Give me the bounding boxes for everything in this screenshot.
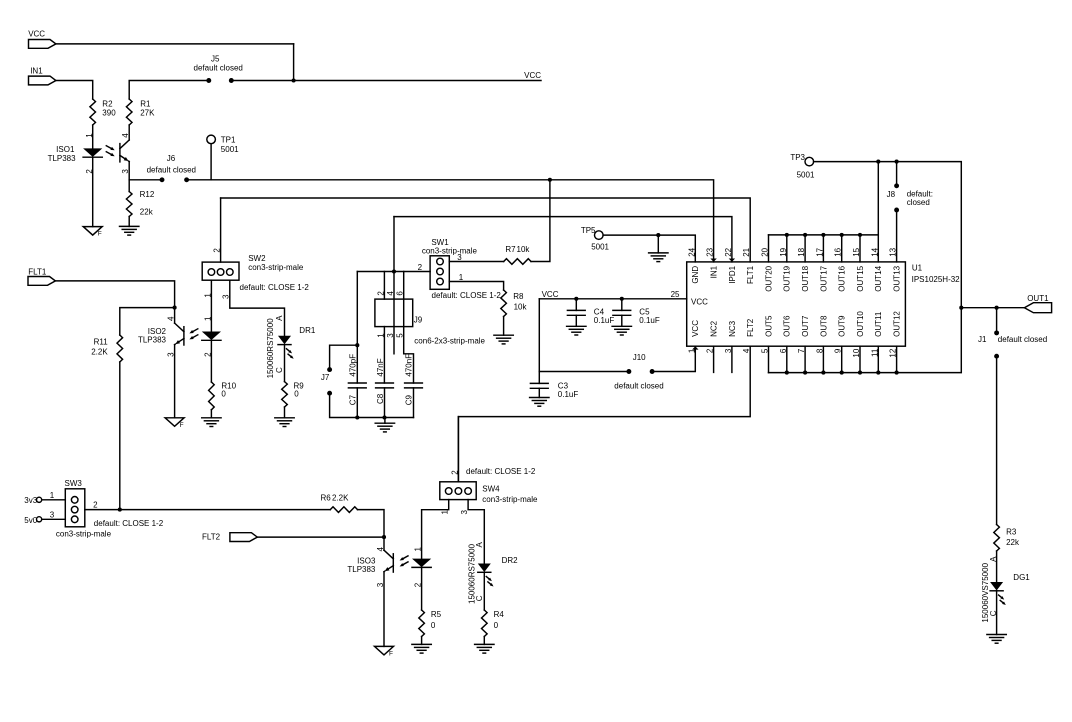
svg-text:J10: J10 (633, 353, 646, 362)
wire R10 to ground (210, 410, 212, 418)
wire TP5 to U1 pin24 (603, 235, 695, 262)
wire SW1 pin2 line (357, 271, 430, 273)
svg-text:R8: R8 (513, 292, 524, 301)
wire J9 pin1 to C8 (383, 327, 385, 383)
wire U1 pin9 stub (841, 346, 843, 372)
svg-text:C8: C8 (376, 393, 385, 404)
svg-text:DG1: DG1 (1013, 573, 1030, 582)
wire U1 pin11 stub (877, 346, 879, 372)
svg-text:con3-strip-male: con3-strip-male (482, 495, 538, 504)
svg-text:SW3: SW3 (65, 479, 83, 488)
svg-text:ISO1: ISO1 (56, 145, 75, 154)
resistor R8 (501, 290, 507, 317)
svg-text:closed: closed (907, 198, 930, 207)
wire 3v3 to SW3 (42, 499, 66, 501)
svg-text:R2: R2 (102, 100, 113, 109)
wire DG1 to ground (996, 591, 998, 635)
svg-text:NC3: NC3 (728, 320, 737, 337)
junction top bus pin16 (840, 233, 844, 237)
svg-text:default: CLOSE 1-2: default: CLOSE 1-2 (94, 519, 164, 528)
wire U1 pin16 stub (841, 235, 843, 262)
svg-text:TP5: TP5 (581, 226, 596, 235)
svg-text:TP3: TP3 (790, 153, 805, 162)
ground C4 (567, 325, 586, 327)
pin 5v0 (37, 517, 42, 522)
wire J1 top stub (996, 308, 998, 333)
svg-text:150060VS75000: 150060VS75000 (981, 562, 990, 622)
ground R5 (412, 643, 431, 645)
wire R12 to ground (128, 217, 130, 227)
junction J9 pin4 / SW1 line (392, 269, 396, 273)
ground F ISO2 (165, 418, 184, 427)
svg-text:FLT1: FLT1 (746, 265, 755, 284)
capacitor C7 (348, 382, 366, 384)
junction TP3/pin14 (876, 160, 880, 164)
wire IN1 to R2 (56, 81, 93, 100)
wire ISO1 LED cathode down (92, 157, 94, 226)
wire ISO1 emitter down to J6 line (128, 162, 130, 180)
wire U1 pin8 stub (822, 346, 824, 372)
svg-text:3: 3 (50, 510, 55, 519)
ground R4 (475, 643, 494, 645)
svg-text:ISO3: ISO3 (357, 556, 376, 565)
svg-text:default closed: default closed (194, 63, 243, 72)
svg-text:TLP383: TLP383 (347, 565, 376, 574)
svg-text:VCC: VCC (691, 320, 700, 337)
wire C7 bottom (356, 388, 358, 418)
wire J7 top branch (330, 345, 358, 369)
svg-text:10k: 10k (517, 245, 531, 254)
wire 5v0 to SW3 (42, 518, 66, 520)
svg-text:R7: R7 (505, 245, 516, 254)
wire R5 to ground (421, 637, 423, 645)
wire U1 pin17 stub (822, 235, 824, 262)
svg-text:FLT2: FLT2 (202, 532, 221, 541)
opto ISO3 transistor (392, 554, 394, 572)
svg-text:J1: J1 (978, 335, 987, 344)
svg-text:3: 3 (386, 333, 395, 338)
testpoint TP5 (595, 231, 604, 240)
svg-text:2: 2 (418, 263, 423, 272)
svg-text:default: CLOSE 1-2: default: CLOSE 1-2 (432, 291, 502, 300)
svg-text:5001: 5001 (797, 171, 815, 180)
resistor R5 (419, 610, 425, 637)
wire R9 to ground (284, 407, 286, 418)
svg-text:F: F (389, 651, 393, 658)
junction bottom bus pin8 (821, 371, 825, 375)
junction IN1b/R7 branch (548, 178, 552, 182)
svg-text:OUT16: OUT16 (838, 265, 847, 291)
connector FLT1 flag (28, 277, 55, 286)
wire U1 pin14 vertical (877, 162, 879, 262)
svg-text:R3: R3 (1006, 528, 1017, 537)
svg-text:TLP383: TLP383 (48, 154, 77, 163)
svg-text:OUT5: OUT5 (764, 315, 773, 337)
svg-text:DR1: DR1 (299, 326, 316, 335)
junction top bus pin17 (821, 233, 825, 237)
svg-text:R12: R12 (140, 190, 155, 199)
svg-text:22: 22 (724, 247, 733, 256)
svg-text:0.1uF: 0.1uF (639, 316, 660, 325)
svg-text:22k: 22k (140, 208, 154, 217)
svg-text:J5: J5 (211, 55, 220, 64)
svg-text:5001: 5001 (591, 243, 609, 252)
ground cap bus (384, 418, 386, 424)
wire VCC flag to corner (56, 43, 294, 45)
wire J7 bottom branch (330, 393, 414, 417)
svg-text:1: 1 (85, 133, 94, 138)
capacitor C3 (530, 382, 548, 384)
resistor R6 (330, 507, 357, 513)
svg-text:IPS1025H-32: IPS1025H-32 (912, 275, 961, 284)
junction TP3/J8 (895, 160, 899, 164)
ground C3 (530, 397, 549, 399)
svg-text:default closed: default closed (998, 335, 1047, 344)
svg-text:2.2K: 2.2K (91, 347, 108, 356)
svg-text:OUT12: OUT12 (893, 311, 902, 337)
junction OUT1 rail (959, 306, 963, 310)
wire OUT1 line (961, 307, 1024, 309)
svg-text:U1: U1 (912, 263, 923, 272)
svg-text:A: A (989, 556, 998, 562)
wire DR2 to R4 (483, 572, 485, 610)
svg-text:OUT6: OUT6 (783, 315, 792, 337)
ground DG1 (987, 634, 1006, 636)
junction C7/J7 (355, 343, 359, 347)
wire ISO2 collector (174, 308, 176, 324)
wire J5 left segment to R1 (129, 81, 209, 100)
svg-text:25: 25 (671, 290, 680, 299)
wire U1 pin13 from J8 (896, 210, 898, 262)
wire C8 bottom (384, 388, 386, 418)
svg-text:IPD1: IPD1 (728, 265, 737, 283)
wire U1 pin3 stub NC3 (731, 346, 733, 372)
svg-text:OUT7: OUT7 (801, 315, 810, 337)
wire TP3 rail (814, 162, 962, 308)
wire J9 pin2 stub (383, 272, 385, 300)
wire SW2 pin2 up (220, 198, 222, 262)
junction bottom bus pin11 (876, 371, 880, 375)
resistor R3 (994, 525, 1000, 552)
svg-text:FLT1: FLT1 (28, 267, 47, 276)
svg-text:SW2: SW2 (248, 254, 266, 263)
resistor R11 (117, 335, 123, 362)
wire U1 pin19 stub (786, 235, 788, 262)
connector OUT1 flag (1024, 303, 1051, 313)
svg-text:6: 6 (396, 291, 405, 296)
wire C7 vertical (356, 272, 358, 384)
junction top bus pin15 (858, 233, 862, 237)
svg-text:J8: J8 (887, 190, 896, 199)
svg-text:ISO2: ISO2 (148, 327, 167, 336)
junction R11/SW3 line (118, 508, 122, 512)
junction top bus pin18 (803, 233, 807, 237)
jumper J8 (894, 183, 899, 188)
svg-text:OUT9: OUT9 (838, 315, 847, 337)
svg-text:5: 5 (396, 333, 405, 338)
pin 3v3 (37, 497, 42, 502)
wire SW4 pin2 up (from U1 pin4 route) (457, 417, 459, 482)
svg-text:con3-strip-male: con3-strip-male (422, 247, 478, 256)
wire J9 pin4 vertical (393, 217, 395, 354)
jumper J6 (160, 177, 165, 182)
junction bottom bus pin6 (785, 371, 789, 375)
svg-text:C: C (275, 367, 284, 373)
svg-text:0.1uF: 0.1uF (558, 390, 579, 399)
wire C3 stem (538, 372, 540, 384)
jumper J10 (626, 369, 631, 374)
svg-text:OUT1: OUT1 (1027, 294, 1049, 303)
wire SW1 pin3 to R7 (449, 261, 503, 263)
svg-text:1: 1 (687, 348, 696, 353)
connector SW2 (202, 262, 239, 280)
svg-text:0: 0 (221, 390, 226, 399)
svg-text:J7: J7 (321, 373, 330, 382)
svg-text:VCC: VCC (542, 290, 559, 299)
ground R10 (202, 417, 221, 419)
wire U1 pin20 stub (768, 235, 770, 262)
junction VCC/J5 (292, 78, 296, 82)
svg-text:4: 4 (167, 316, 176, 321)
wire U1 pin5 stub (768, 346, 770, 372)
jumper J1 (994, 330, 999, 335)
wire R1 to ISO1 collector (128, 125, 130, 140)
svg-text:TP1: TP1 (221, 135, 236, 144)
led DR2 (478, 564, 491, 573)
svg-text:J6: J6 (167, 154, 176, 163)
svg-text:4: 4 (376, 547, 385, 552)
svg-text:R11: R11 (94, 338, 109, 347)
svg-text:A: A (275, 315, 284, 321)
wire SW1 pin1 to R8 (449, 282, 503, 291)
wire R4 to ground (483, 637, 485, 645)
svg-text:default closed: default closed (614, 381, 663, 390)
wire SW2 pin1 to ISO2 LED (210, 280, 212, 331)
resistor R4 (482, 610, 488, 637)
svg-text:R5: R5 (431, 610, 442, 619)
svg-text:con6-2x3-strip-male: con6-2x3-strip-male (414, 336, 485, 345)
svg-text:3v3: 3v3 (24, 496, 37, 505)
svg-text:2.2K: 2.2K (332, 493, 349, 502)
capacitor C9 (405, 382, 423, 384)
wire TP1 stem (210, 144, 212, 180)
junction bottom bus pin10 (858, 371, 862, 375)
svg-text:SW4: SW4 (482, 485, 500, 494)
wire DR1 to R9 (284, 345, 286, 382)
svg-text:default: CLOSE 1-2: default: CLOSE 1-2 (466, 467, 536, 476)
svg-text:23: 23 (706, 247, 715, 256)
resistor R2 (90, 99, 96, 125)
wire SW3 pin2 to R6 (85, 509, 330, 511)
connector FLT2 flag (230, 533, 257, 542)
wire net IN1b left segment (129, 179, 162, 181)
svg-text:R4: R4 (494, 610, 505, 619)
capacitor C5 (613, 309, 631, 311)
svg-text:21: 21 (742, 247, 751, 256)
svg-text:2: 2 (376, 291, 385, 296)
svg-text:150060RS75000: 150060RS75000 (266, 318, 275, 379)
junction J1 tap (995, 306, 999, 310)
svg-text:4: 4 (121, 133, 130, 138)
svg-text:22k: 22k (1006, 538, 1020, 547)
capacitor C4 (567, 309, 585, 311)
svg-text:0: 0 (494, 621, 499, 630)
ground TP5 (649, 252, 668, 254)
svg-text:0: 0 (294, 390, 299, 399)
led DR1 (278, 336, 291, 345)
svg-text:con3-strip-male: con3-strip-male (56, 530, 112, 539)
wire SW2 pin3 to DR1 (230, 280, 285, 336)
junction C8 gnd bus (382, 415, 386, 419)
ground R12 (120, 225, 139, 227)
wire R11 down to SW3 line (119, 362, 121, 510)
wire R8 to ground (503, 317, 505, 336)
resistor R10 (209, 382, 215, 410)
connector SW4 (440, 482, 476, 500)
wire FLT2 to junction (257, 536, 384, 538)
wire C9 bottom (413, 388, 415, 418)
wire TP5 gnd stem (657, 235, 659, 253)
svg-text:SW1: SW1 (431, 238, 449, 247)
resistor R1 (126, 99, 132, 125)
connector VCC flag (29, 40, 56, 49)
wire VCC rail down to J10 (539, 299, 629, 372)
junction FLT2/R6/ISO3 (382, 535, 386, 539)
wire C5 to gnd (621, 315, 623, 326)
svg-text:47nF: 47nF (376, 358, 385, 376)
svg-text:OUT18: OUT18 (801, 265, 810, 291)
svg-text:1: 1 (50, 491, 55, 500)
wire ISO3 LED to R5 (421, 567, 423, 610)
wire ISO3 emitter down (383, 572, 385, 647)
svg-text:2: 2 (213, 248, 222, 253)
wire C4 stem (575, 299, 577, 311)
jumper J5 (206, 78, 211, 83)
svg-text:OUT13: OUT13 (893, 265, 902, 291)
svg-text:OUT10: OUT10 (856, 311, 865, 337)
svg-text:default closed: default closed (147, 165, 196, 174)
ground R8 (494, 334, 513, 336)
wire C4 to gnd (575, 315, 577, 326)
wire U1 pin10 stub (859, 346, 861, 372)
svg-text:VCC: VCC (524, 71, 541, 80)
wire net IN1b long line to U1 pin23 (187, 180, 714, 262)
junction top bus pin19 (785, 233, 789, 237)
wire J10 to U1 pin1 (652, 346, 695, 371)
wire FLT1 to ISO2 (55, 281, 174, 308)
svg-text:24: 24 (687, 247, 696, 256)
wire ISO2 emitter down (174, 345, 176, 418)
svg-text:4: 4 (386, 291, 395, 296)
wire U1 pin7 stub (804, 346, 806, 372)
wire R2 to ISO1 LED (92, 125, 94, 148)
svg-text:C7: C7 (349, 394, 358, 405)
wire C5 stem (621, 299, 623, 311)
wire U1 pin18 stub (804, 235, 806, 262)
wire U1 pin12 stub (896, 346, 898, 372)
svg-text:10k: 10k (514, 303, 528, 312)
wire U1 bottom bus OUT5-OUT12 (769, 308, 962, 373)
svg-text:2: 2 (450, 470, 459, 475)
wire ISO2 LED to R10 (210, 340, 212, 382)
opto ISO2 LED (202, 332, 221, 341)
svg-text:R6: R6 (321, 493, 332, 502)
svg-text:TLP383: TLP383 (138, 336, 167, 345)
svg-text:NC2: NC2 (710, 320, 719, 337)
opto ISO2 transistor (183, 327, 185, 345)
svg-text:OUT15: OUT15 (856, 265, 865, 291)
wire net FLT1b SW2 to U1 pin21 (221, 198, 751, 262)
svg-text:0: 0 (431, 621, 436, 630)
junction bottom bus pin12 (895, 371, 899, 375)
svg-text:F: F (180, 422, 184, 429)
svg-text:VCC: VCC (691, 298, 708, 307)
svg-text:C9: C9 (405, 395, 414, 406)
svg-text:OUT11: OUT11 (874, 311, 883, 337)
svg-text:VCC: VCC (28, 29, 45, 38)
junction C5 (620, 297, 624, 301)
wire R7 to IN1b line (531, 180, 550, 262)
pin arrow IN1 pin23 (710, 259, 716, 262)
jumper J7 (327, 367, 332, 372)
testpoint TP3 (805, 157, 814, 166)
svg-text:5v0: 5v0 (24, 516, 37, 525)
svg-text:1: 1 (414, 547, 423, 552)
opto ISO1 LED (83, 148, 102, 157)
svg-text:default: CLOSE 1-2: default: CLOSE 1-2 (240, 283, 310, 292)
testpoint TP1 (207, 135, 216, 144)
svg-text:J9: J9 (414, 315, 423, 324)
wire J6 line to R12 (128, 180, 130, 192)
svg-text:470nF: 470nF (405, 354, 414, 377)
svg-text:FLT2: FLT2 (746, 318, 755, 337)
svg-text:470pF: 470pF (349, 354, 358, 377)
IC U1 IPS1025H-32 (687, 262, 906, 346)
wire junction to R11 (120, 308, 175, 335)
pin arrow VCC pin1 (692, 346, 698, 349)
svg-text:R1: R1 (140, 100, 151, 109)
svg-text:390: 390 (102, 108, 116, 117)
svg-text:F: F (98, 231, 102, 238)
resistor R9 (282, 382, 288, 407)
ground C5 (612, 325, 631, 327)
wire U1 pin4 FLT2 to SW4 (458, 346, 750, 482)
wire J9 pin6-pin5 vertical (404, 272, 414, 384)
wire ISO3 collector (383, 537, 385, 550)
svg-text:OUT19: OUT19 (783, 265, 792, 291)
wire U1 pin2 stub NC2 (713, 346, 715, 372)
wire C3 to gnd (538, 388, 540, 397)
svg-text:27K: 27K (140, 108, 155, 117)
wire VCC corner down (293, 44, 295, 81)
svg-text:con3-strip-male: con3-strip-male (248, 263, 304, 272)
svg-text:OUT20: OUT20 (764, 265, 773, 291)
wire net IPD1 J9 to U1 pin22 (394, 217, 732, 262)
svg-text:2: 2 (93, 500, 98, 509)
ground R9 (275, 417, 294, 419)
svg-text:1: 1 (203, 316, 212, 321)
junction TP5 gnd (656, 233, 660, 237)
wire R6 to FLT2 junction (358, 510, 385, 537)
junction C7 gnd bus (355, 415, 359, 419)
svg-text:GND: GND (691, 266, 700, 284)
svg-text:IN1: IN1 (30, 66, 43, 75)
opto ISO1 transistor (119, 144, 121, 162)
svg-text:IN1: IN1 (710, 265, 719, 278)
led DG1 (990, 582, 1003, 591)
junction FLT1/R11/ISO2 (173, 306, 177, 310)
svg-text:5001: 5001 (221, 145, 239, 154)
